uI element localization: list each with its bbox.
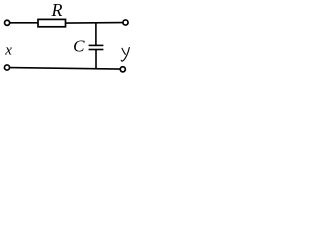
wire (bottom rail): [10, 68, 121, 70]
label y: [121, 48, 129, 62]
terminal (bottom-left): [4, 65, 9, 70]
capacitor C: [89, 45, 104, 49]
wire (resistor to top-right terminal, with node junction): [66, 22, 123, 25]
wire (capacitor bottom lead to bottom wire): [95, 50, 97, 69]
terminal (top-left, input x): [5, 20, 10, 25]
svg-text:x: x: [4, 43, 12, 59]
resistor R: [38, 19, 66, 26]
svg-text:C: C: [73, 36, 85, 55]
wire (capacitor top lead from node): [95, 23, 97, 46]
terminal (bottom-right): [120, 67, 125, 72]
svg-text:R: R: [51, 0, 63, 20]
wire (top-left terminal to resistor): [10, 22, 38, 24]
terminal (top-right, output y): [123, 20, 128, 25]
